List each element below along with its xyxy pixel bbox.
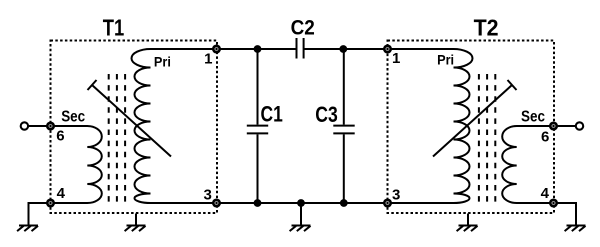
wire: top rail T1 pin1 to C2 left plate	[220, 48, 296, 50]
svg-text:4: 4	[541, 185, 550, 202]
wire: T1 shield to ground	[135, 214, 137, 226]
svg-text:C2: C2	[291, 16, 315, 40]
ground (T2 shield)	[457, 226, 478, 232]
svg-text:T1: T1	[103, 15, 125, 41]
svg-text:Pri: Pri	[154, 53, 171, 69]
input terminal	[21, 122, 28, 129]
svg-text:T2: T2	[474, 15, 499, 41]
T2 pin 3 terminal circle	[384, 200, 390, 206]
wire: bottom rail to center ground	[300, 203, 302, 226]
ground (center)	[290, 226, 311, 232]
wire: T1 pin1 to coil top	[151, 48, 217, 50]
T1 pin 3 terminal circle	[213, 200, 219, 206]
inductor T1 secondary winding	[51, 126, 102, 203]
svg-text:C3: C3	[315, 102, 338, 127]
T1 pin 1 terminal circle	[213, 46, 219, 52]
svg-text:Pri: Pri	[437, 52, 454, 68]
inductor T2 secondary winding	[502, 126, 553, 203]
wire: top rail C2 right plate to T2 pin1	[305, 48, 385, 50]
svg-text:Sec: Sec	[521, 108, 545, 125]
transformer T1 shield box (dotted)	[51, 41, 218, 214]
svg-text:3: 3	[204, 186, 212, 203]
node: C3 top junction	[339, 45, 347, 53]
input terminal wire	[29, 125, 48, 127]
T1 pin 4 terminal circle	[47, 200, 53, 206]
T2 tuning slug arrow	[433, 80, 517, 157]
node: C1 top junction	[254, 45, 262, 53]
ground (output side)	[565, 226, 586, 232]
svg-text:1: 1	[392, 50, 400, 67]
wire: T2 coil bottom to pin3	[388, 202, 454, 204]
wire: T2 pin1 to coil top	[388, 48, 454, 50]
T1 pin 6 terminal circle	[47, 123, 53, 129]
output terminal wire	[557, 125, 576, 127]
svg-text:3: 3	[392, 186, 400, 203]
ground (input side)	[17, 226, 38, 232]
capacitor C1	[247, 49, 268, 203]
svg-text:4: 4	[57, 185, 66, 202]
wire: T1 coil bottom to pin3	[151, 202, 217, 204]
svg-text:C1: C1	[261, 102, 283, 127]
svg-text:Sec: Sec	[61, 109, 85, 126]
wire: T1 pin4 to ground	[29, 203, 48, 226]
T2 pin 6 terminal circle	[550, 123, 556, 129]
inductor T2 primary winding	[454, 49, 473, 203]
output terminal	[576, 122, 583, 129]
T2 pin 4 terminal circle	[550, 200, 556, 206]
node: C1 bottom junction	[254, 199, 262, 207]
svg-text:1: 1	[204, 51, 212, 68]
T1 tuning slug arrow	[88, 80, 172, 157]
capacitor C3	[333, 49, 354, 203]
transformer T2 shield box (dotted)	[388, 41, 555, 214]
node: center ground junction	[297, 199, 305, 207]
wire: T2 pin4 to ground	[557, 203, 576, 226]
wire: bottom rail T1 pin3 to T2 pin3	[220, 202, 384, 204]
ground (T1 shield)	[125, 226, 146, 232]
node: C3 bottom junction	[340, 199, 348, 207]
dotted-box dashes visible inside pin circles	[215, 48, 217, 51]
wire: T2 shield to ground	[467, 214, 469, 226]
T2 adjustable core (dashed lines)	[479, 74, 495, 207]
svg-text:6: 6	[56, 128, 64, 145]
T2 pin 1 terminal circle	[384, 46, 390, 52]
inductor T1 primary winding	[132, 49, 151, 203]
svg-text:6: 6	[541, 129, 549, 146]
T1 adjustable core (dashed lines)	[109, 74, 125, 207]
capacitor C2	[297, 38, 304, 59]
